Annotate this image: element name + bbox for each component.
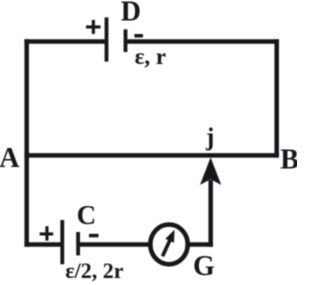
wire top-right segment (battery D - to B-side) — [126, 39, 280, 44]
battery C minus sign — [89, 234, 99, 238]
battery D minus sign — [134, 34, 143, 38]
battery D negative plate (short) — [124, 29, 128, 52]
svg-text:j: j — [205, 124, 214, 151]
galvanometer needle shaft — [163, 240, 171, 257]
battery D plus sign — [86, 20, 101, 34]
wire middle A-B — [24, 153, 279, 158]
wire top-left segment (A-side to battery D +) — [24, 39, 106, 44]
svg-text:B: B — [280, 144, 297, 175]
svg-text:C: C — [77, 200, 97, 230]
svg-text:ε, r: ε, r — [135, 44, 167, 69]
svg-text:D: D — [121, 0, 141, 28]
wire bottom-left segment (left corner to battery C +) — [24, 242, 62, 247]
battery D positive plate (long) — [105, 17, 109, 61]
svg-text:A: A — [0, 143, 20, 174]
battery C plus sign — [40, 226, 54, 240]
wire bottom middle segment (battery C - to galvanometer) — [78, 242, 150, 247]
svg-text:ε/2, 2r: ε/2, 2r — [65, 258, 124, 283]
svg-text:G: G — [193, 251, 215, 282]
battery C positive plate (long) — [60, 220, 64, 264]
battery C negative plate (short) — [76, 232, 80, 255]
wire left vertical (top corner down to bottom branch) — [24, 39, 29, 247]
current arrow head at node j — [200, 157, 221, 185]
galvanometer G circle — [150, 225, 187, 265]
wire riser (vertical shaft of current arrow j) — [208, 180, 213, 247]
wire bottom-right segment (galvanometer to riser corner) — [188, 242, 213, 247]
galvanometer needle arrowhead — [165, 230, 174, 243]
wire right vertical (top corner down to node B) — [274, 39, 279, 157]
